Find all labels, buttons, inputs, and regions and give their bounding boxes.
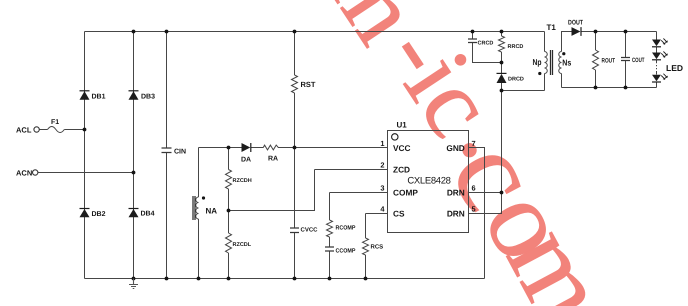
op-amp U1 box xyxy=(388,131,469,233)
svg-text:CCOMP: CCOMP xyxy=(336,248,356,255)
wire ACL input xyxy=(39,129,84,131)
wire RST/VCC column xyxy=(294,32,296,279)
svg-text:RZCDH: RZCDH xyxy=(233,178,252,184)
wire snubber RRCD column xyxy=(501,32,503,91)
diode DB1 xyxy=(80,91,90,100)
ground xyxy=(129,279,138,289)
terminal ACN xyxy=(33,170,38,175)
capacitor CIN xyxy=(162,148,172,153)
svg-text:DA: DA xyxy=(241,157,251,164)
diode DOUT xyxy=(572,27,581,36)
junction xyxy=(624,86,628,90)
svg-text:RCS: RCS xyxy=(371,244,384,251)
wire bridge column DB3/DB4 xyxy=(133,32,135,279)
wire drain column xyxy=(501,91,503,193)
wire ROUT column xyxy=(595,32,597,88)
junction xyxy=(471,30,475,34)
junction xyxy=(132,30,136,34)
svg-text:DOUT: DOUT xyxy=(568,20,584,27)
junction xyxy=(132,171,136,175)
junction xyxy=(500,191,504,195)
wire LED string column xyxy=(656,32,658,88)
wire ACN input xyxy=(38,172,134,174)
svg-text:GND: GND xyxy=(446,143,464,153)
winding Np xyxy=(545,52,548,74)
junction xyxy=(83,128,87,132)
wire GND pin 7 xyxy=(469,148,485,279)
junction xyxy=(132,277,136,281)
junction xyxy=(500,30,504,34)
wire bridge column DB1/DB2 xyxy=(84,32,86,279)
svg-text:CVCC: CVCC xyxy=(301,227,319,234)
capacitor CRCD xyxy=(468,39,477,43)
resistor RRCD xyxy=(499,36,505,52)
LED D3 xyxy=(652,75,661,82)
wire NA column xyxy=(198,148,200,279)
svg-text:6: 6 xyxy=(472,184,476,193)
junction xyxy=(197,277,201,281)
diode DB3 xyxy=(129,91,139,100)
junction xyxy=(500,61,504,65)
svg-text:DB1: DB1 xyxy=(92,94,106,101)
svg-text:CXLE8428: CXLE8428 xyxy=(407,175,450,186)
junction xyxy=(227,277,231,281)
svg-text:VCC: VCC xyxy=(393,143,411,153)
wire CS pin 4 xyxy=(366,213,388,215)
wire drain link to Np xyxy=(502,90,545,92)
wire COUT column xyxy=(625,32,627,88)
svg-text:CRCD: CRCD xyxy=(478,41,494,47)
junction xyxy=(594,30,598,34)
svg-text:U1: U1 xyxy=(397,121,408,130)
resistor RCS xyxy=(363,238,369,255)
junction xyxy=(328,277,332,281)
svg-text:RZCDL: RZCDL xyxy=(233,242,252,248)
wire bottom rail xyxy=(85,278,485,280)
svg-text:DRN: DRN xyxy=(447,187,465,197)
svg-text:DB3: DB3 xyxy=(141,94,155,101)
polarity dot NA xyxy=(202,196,205,199)
junction xyxy=(165,277,169,281)
junction xyxy=(500,89,504,93)
resistor RZCDH xyxy=(226,170,232,190)
resistor RCOMP xyxy=(327,220,333,237)
wire COMP pin 3 xyxy=(330,192,388,194)
capacitor COUT xyxy=(621,58,630,61)
LED light arrows xyxy=(661,39,668,80)
svg-text:COUT: COUT xyxy=(632,57,645,64)
svg-text:DRN: DRN xyxy=(447,208,465,218)
svg-text:ROUT: ROUT xyxy=(602,57,616,64)
wire top rail xyxy=(85,31,545,33)
svg-text:5: 5 xyxy=(472,205,476,214)
svg-text:Np: Np xyxy=(533,57,542,67)
svg-text:Ns: Ns xyxy=(562,58,571,68)
wire CRCD column xyxy=(473,32,502,63)
capacitor CVCC xyxy=(290,228,299,233)
svg-text:T1: T1 xyxy=(547,23,557,32)
winding Ns xyxy=(559,52,562,74)
svg-text:ACN: ACN xyxy=(16,169,32,178)
svg-text:DB4: DB4 xyxy=(141,211,155,218)
wire DRN pin 6 xyxy=(469,192,502,194)
svg-text:F1: F1 xyxy=(51,119,59,126)
wire DRN pin 5 xyxy=(469,193,502,214)
junction xyxy=(293,277,297,281)
polarity dot Np xyxy=(538,72,541,75)
wire COMP compensation column xyxy=(329,193,331,279)
svg-text:DRCD: DRCD xyxy=(508,77,524,83)
resistor RZCDL xyxy=(226,233,232,253)
wire ZCD link xyxy=(229,170,315,211)
svg-text:DB2: DB2 xyxy=(92,211,106,218)
svg-text:ACL: ACL xyxy=(16,126,32,135)
capacitor CCOMP xyxy=(325,247,334,251)
junction xyxy=(227,209,231,213)
svg-text:COMP: COMP xyxy=(393,187,418,197)
pin 1 marker circle inside U1 xyxy=(392,134,398,140)
wire secondary bottom rail xyxy=(562,87,657,89)
resistor RST xyxy=(292,75,298,93)
wire VCC net xyxy=(199,147,388,149)
svg-text:1: 1 xyxy=(380,139,384,148)
fuse F1 xyxy=(48,127,65,133)
core T1 xyxy=(551,50,553,75)
wire CIN column xyxy=(166,32,168,279)
svg-text:ZCD: ZCD xyxy=(393,164,410,174)
junction xyxy=(624,30,628,34)
junction xyxy=(293,30,297,34)
svg-text:RST: RST xyxy=(301,80,316,89)
svg-text:4: 4 xyxy=(380,205,385,214)
svg-text:NA: NA xyxy=(206,207,218,216)
wire RZCD column xyxy=(228,148,230,279)
junction xyxy=(227,146,231,150)
junction xyxy=(364,277,368,281)
diode DB2 xyxy=(80,209,90,217)
svg-text:RA: RA xyxy=(268,156,278,163)
svg-text:3: 3 xyxy=(380,184,384,193)
junction xyxy=(594,86,598,90)
core NA xyxy=(193,196,195,220)
svg-text:2: 2 xyxy=(380,161,384,170)
svg-text:RRCD: RRCD xyxy=(508,44,524,50)
diode DB4 xyxy=(129,209,139,217)
polarity dot Ns xyxy=(562,52,565,55)
wire RCS column xyxy=(365,214,367,279)
svg-text:RCOMP: RCOMP xyxy=(336,225,356,232)
wire ZCD pin 2 xyxy=(315,169,388,171)
dotted LED continuation xyxy=(656,62,658,72)
wire secondary top rail xyxy=(581,31,657,33)
terminal ACL xyxy=(34,127,39,132)
LED D2 xyxy=(652,53,661,60)
svg-text:7: 7 xyxy=(472,139,476,148)
resistor ROUT xyxy=(593,50,599,70)
resistor RA xyxy=(262,145,280,150)
junction xyxy=(293,146,297,150)
diode DRCD xyxy=(497,74,507,83)
junction xyxy=(165,30,169,34)
svg-text:LED: LED xyxy=(666,63,683,73)
diode DA xyxy=(242,143,251,152)
wire Np primary xyxy=(544,32,546,91)
svg-text:CIN: CIN xyxy=(174,149,186,156)
wire Ns secondary xyxy=(562,32,572,88)
LED D1 xyxy=(652,40,661,47)
winding NA xyxy=(196,197,199,219)
svg-text:CS: CS xyxy=(393,208,405,218)
